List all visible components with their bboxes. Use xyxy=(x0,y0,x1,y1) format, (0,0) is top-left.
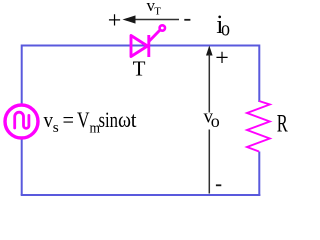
vo arrow line upper xyxy=(208,54,210,113)
svg-text:o: o xyxy=(221,15,230,40)
source sine squiggle xyxy=(15,112,29,128)
svg-text:T: T xyxy=(154,6,161,18)
wire right upper xyxy=(258,45,260,103)
vT arrowhead xyxy=(123,15,136,23)
svg-text:T: T xyxy=(133,57,146,81)
svg-text:s: s xyxy=(53,120,59,136)
svg-text:=: = xyxy=(63,107,75,132)
vo arrow head xyxy=(206,46,213,56)
vT minus sign xyxy=(184,19,190,21)
svg-text:ω: ω xyxy=(118,107,131,132)
thyristor gate terminal circle xyxy=(160,25,165,30)
wire top xyxy=(22,45,260,47)
thyristor cathode bar xyxy=(147,35,150,57)
wire bottom xyxy=(21,194,261,196)
thyristor T triangle xyxy=(131,36,148,57)
svg-text:v: v xyxy=(44,107,54,132)
svg-text:o: o xyxy=(211,111,220,131)
svg-text:+: + xyxy=(108,8,122,34)
svg-text:+: + xyxy=(215,46,229,72)
svg-text:R: R xyxy=(277,111,288,138)
wire left lower xyxy=(21,139,23,195)
vo arrow line lower xyxy=(208,130,210,194)
source VS circle xyxy=(5,105,38,138)
thyristor gate lead xyxy=(149,30,160,42)
svg-text:t: t xyxy=(131,107,137,132)
wire right lower xyxy=(258,152,260,197)
resistor R zigzag xyxy=(247,101,270,152)
wire left upper xyxy=(21,45,23,105)
svg-text:sin: sin xyxy=(99,107,119,132)
svg-text:V: V xyxy=(77,107,90,132)
vT arrow line xyxy=(130,19,179,21)
vo minus sign xyxy=(216,184,221,186)
